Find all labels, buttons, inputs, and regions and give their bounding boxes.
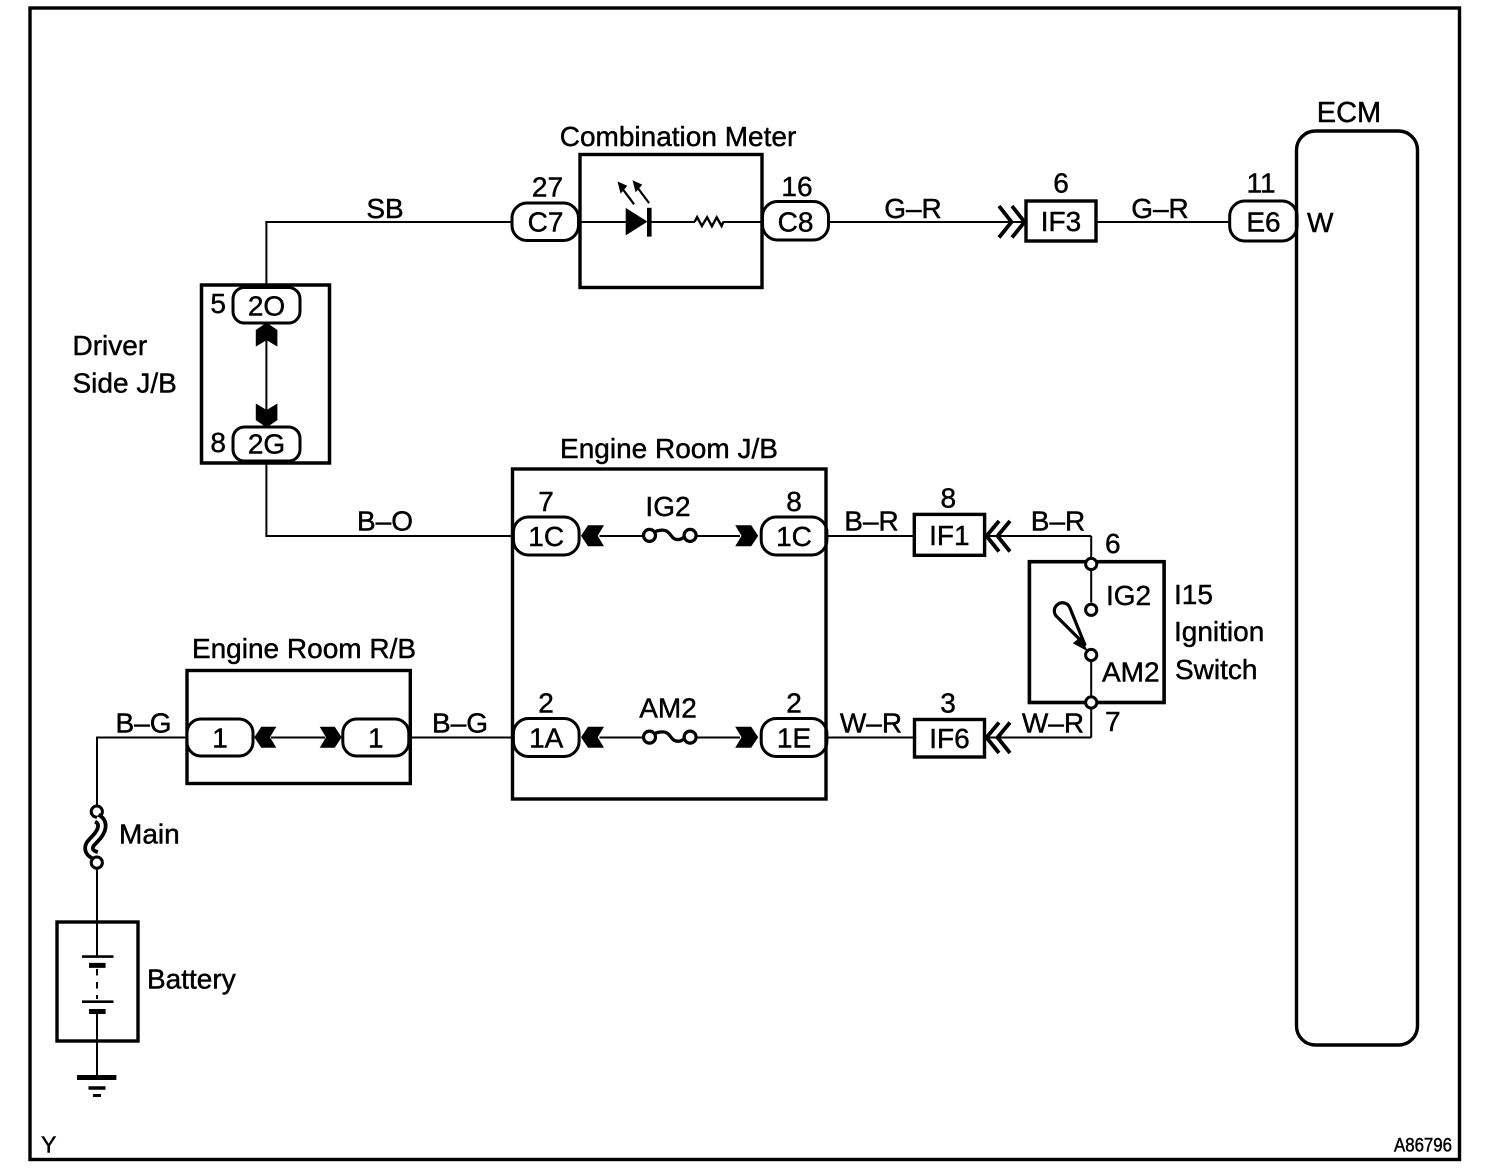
arrow left: [581, 525, 604, 546]
svg-text:A86796: A86796: [1394, 1136, 1452, 1157]
junction block IF1 pin 8: [914, 514, 984, 555]
wire C7 to LED: [580, 221, 626, 223]
svg-text:Ignition: Ignition: [1174, 616, 1264, 647]
terminal 7: [1086, 697, 1097, 708]
Engine Room J/B box: [513, 469, 827, 799]
ECM U1 box: [1297, 131, 1418, 1045]
connector 1 (right): [343, 719, 409, 756]
wire 1C to IF1, label B-R: [827, 535, 914, 537]
row AM2: connector 1A pin 2: [513, 719, 579, 757]
svg-text:G–R: G–R: [884, 193, 942, 224]
wire down to Main fusible link: [96, 737, 98, 806]
svg-text:SB: SB: [366, 193, 403, 224]
svg-text:B–R: B–R: [1031, 506, 1085, 537]
svg-text:B–G: B–G: [432, 708, 488, 739]
svg-text:11: 11: [1246, 168, 1275, 199]
wire AM2 contact to terminal 7: [1090, 662, 1092, 696]
contact IG2: [1086, 604, 1097, 615]
wire C8 to IF3, label G-R: [829, 221, 1027, 223]
svg-text:Combination Meter: Combination Meter: [560, 121, 797, 152]
connector 2O pin 5: [233, 288, 300, 324]
connector 1C pin 8: [761, 517, 827, 555]
wire in row AM2: [600, 737, 645, 739]
svg-text:7: 7: [1105, 706, 1121, 737]
svg-text:IF3: IF3: [1041, 206, 1081, 237]
svg-text:Switch: Switch: [1175, 654, 1257, 685]
svg-text:W–R: W–R: [1022, 708, 1084, 739]
svg-text:2: 2: [538, 688, 554, 719]
svg-text:1: 1: [212, 723, 228, 754]
switch lever: [1054, 603, 1084, 645]
svg-text:5: 5: [210, 288, 226, 319]
junction block IF6 pin 3: [915, 720, 985, 758]
svg-text:7: 7: [538, 486, 554, 517]
wire IF3 to E6, label G-R: [1096, 221, 1230, 223]
fusible link Main: [91, 806, 102, 817]
svg-text:1C: 1C: [776, 521, 812, 552]
battery box: [57, 922, 138, 1041]
connector E6 pin 11: [1230, 201, 1297, 241]
wire IF6 to ignition switch, label W-R: [985, 737, 1092, 739]
arrow left: [254, 727, 276, 748]
svg-text:16: 16: [781, 171, 812, 202]
svg-text:B–O: B–O: [357, 506, 413, 537]
svg-text:6: 6: [1105, 528, 1121, 559]
svg-text:B–G: B–G: [115, 708, 171, 739]
wire terminal 6 to IG2 contact: [1090, 571, 1092, 603]
svg-text:1: 1: [368, 723, 384, 754]
svg-text:8: 8: [941, 483, 957, 514]
svg-text:I15: I15: [1174, 579, 1213, 610]
Driver Side J/B box: [202, 285, 330, 463]
svg-text:8: 8: [786, 486, 802, 517]
wire SB: [265, 221, 512, 223]
contact AM2: [1086, 649, 1097, 660]
svg-text:8: 8: [210, 427, 226, 458]
svg-text:3: 3: [940, 688, 956, 719]
svg-text:Y: Y: [41, 1132, 56, 1158]
svg-text:C8: C8: [778, 207, 814, 238]
terminal 6: [1086, 558, 1097, 569]
connector 2G pin 8: [233, 427, 300, 461]
svg-text:Main: Main: [119, 819, 180, 850]
svg-text:Engine Room J/B: Engine Room J/B: [560, 433, 778, 464]
LED D1: [618, 180, 652, 236]
svg-text:AM2: AM2: [1102, 657, 1160, 688]
wire battery to ground: [96, 1013, 98, 1077]
arrow right: [320, 727, 342, 748]
svg-text:B–R: B–R: [844, 506, 898, 537]
connector C8 pin 16: [763, 202, 829, 241]
svg-text:IF6: IF6: [929, 723, 969, 754]
arrow right: [735, 727, 758, 748]
connector 1 (left): [187, 719, 253, 756]
combination meter box: [580, 155, 762, 288]
wire 1E to IF6, label W-R: [827, 737, 915, 739]
row IG2: connector 1C pin 7: [513, 517, 579, 555]
connector 1E pin 2: [761, 719, 827, 757]
wire IF1 to ignition switch, label B-R: [985, 535, 1092, 537]
internal link arrows: [265, 340, 267, 410]
svg-text:AM2: AM2: [639, 693, 697, 724]
svg-text:IF1: IF1: [929, 520, 969, 551]
svg-text:W: W: [1307, 207, 1334, 238]
battery symbol: [82, 955, 114, 958]
svg-text:E6: E6: [1246, 207, 1280, 238]
arrow right: [735, 525, 758, 546]
ground: [77, 1075, 116, 1080]
svg-text:Side J/B: Side J/B: [73, 368, 177, 399]
Engine Room R/B box: [187, 671, 410, 784]
svg-text:Engine Room R/B: Engine Room R/B: [192, 633, 416, 664]
svg-text:1A: 1A: [529, 723, 564, 754]
svg-text:ECM: ECM: [1317, 97, 1381, 129]
wire resistor to C8: [723, 221, 762, 223]
fuse IG2: [644, 529, 656, 541]
svg-text:2G: 2G: [248, 429, 285, 460]
svg-text:2: 2: [786, 688, 802, 719]
ignition switch I15 box: [1029, 562, 1164, 703]
svg-text:Driver: Driver: [73, 330, 148, 361]
junction block IF3 pin 6: [1026, 201, 1096, 241]
svg-text:Battery: Battery: [147, 964, 236, 995]
wire battery to R/B, label B-G: [97, 737, 187, 739]
fuse AM2: [644, 731, 656, 743]
junction chevrons into IF3: [999, 206, 1012, 238]
svg-text:2O: 2O: [248, 291, 285, 322]
svg-text:1E: 1E: [777, 723, 811, 754]
connector C7 pin 27: [512, 203, 579, 241]
svg-text:IG2: IG2: [1106, 580, 1151, 611]
wire 2G to B-O: [265, 460, 267, 536]
wire in row IG2: [600, 535, 645, 537]
resistor R1: [695, 217, 724, 226]
svg-text:27: 27: [532, 172, 563, 203]
svg-text:IG2: IG2: [645, 491, 690, 522]
arrow left: [581, 727, 604, 748]
junction chevrons into IF6: [998, 723, 1011, 754]
svg-text:W–R: W–R: [840, 708, 902, 739]
wire R/B to 1A, label B-G: [409, 737, 514, 739]
svg-text:1C: 1C: [528, 521, 564, 552]
svg-text:C7: C7: [528, 207, 564, 238]
svg-text:G–R: G–R: [1131, 193, 1189, 224]
svg-text:6: 6: [1053, 168, 1069, 199]
wire between arrows: [271, 737, 325, 739]
wire Main to battery: [96, 870, 98, 956]
junction chevrons into IF1: [998, 521, 1011, 552]
wire LED to resistor: [652, 221, 696, 223]
